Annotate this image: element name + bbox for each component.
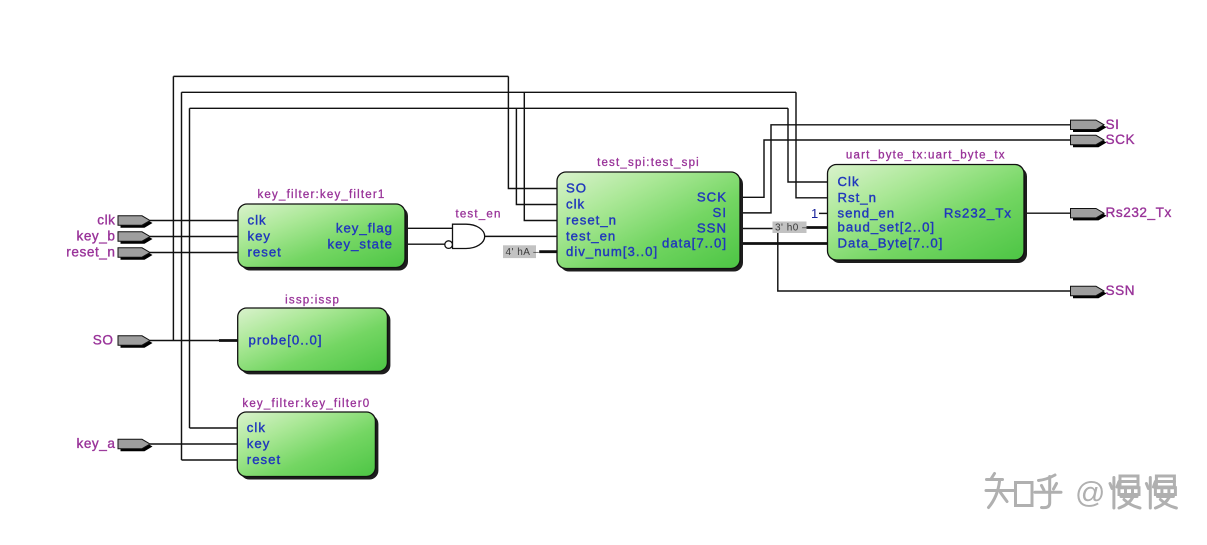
svg-text:reset: reset [247,452,281,467]
input pin key_b [76,229,152,244]
svg-text:key_filter:key_filter0: key_filter:key_filter0 [242,398,370,410]
svg-text:reset_n: reset_n [66,245,115,260]
wire reset_n pin to key_filter1 reset [150,252,238,254]
svg-text:div_num[3..0]: div_num[3..0] [566,244,658,259]
output pin Rs232_Tx [1071,205,1172,220]
block key_filter:key_filter0 [237,398,378,480]
wire SO net left vertical (x=173.4) [172,76,174,340]
wire reset net left vertical (x=181.5) [181,92,183,460]
block issp:issp [238,295,391,375]
wire clk net top horizontal (y=108.3) [190,107,789,109]
svg-text:Data_Byte[7..0]: Data_Byte[7..0] [838,236,944,251]
svg-text:key: key [247,436,271,451]
svg-text:SCK: SCK [1106,132,1136,147]
svg-text:test_en: test_en [566,229,616,244]
svg-text:reset: reset [248,245,282,260]
svg-text:probe[0..0]: probe[0..0] [249,333,323,348]
block uart_byte_tx:uart_byte_tx [828,150,1028,264]
svg-text:@: @ [1075,477,1105,510]
wire clk branch to test_spi clk [516,108,557,204]
wire test_spi SCK output to SCK pin [740,140,1071,197]
svg-text:Rs232_Tx: Rs232_Tx [1106,205,1172,220]
wire SO net top horizontal (y=76.4) [173,75,508,77]
input pin key_a [76,436,152,451]
svg-text:uart_byte_tx:uart_byte_tx: uart_byte_tx:uart_byte_tx [846,150,1006,162]
bus SO to issp probe (thick stub) [219,339,238,342]
svg-text:data[7..0]: data[7..0] [662,236,727,251]
svg-text:issp:issp: issp:issp [285,295,340,307]
bus test_spi data to uart Data_Byte [740,242,828,245]
input pin reset_n [66,245,152,260]
output pin SI [1071,117,1120,132]
wire SO pin to issp probe (thin part) [150,340,219,342]
input pin clk [97,213,152,228]
wire key_a pin to key_filter0 key [150,443,237,445]
svg-text:test_spi:test_spi: test_spi:test_spi [597,157,700,169]
constant label 4'hA [503,245,539,258]
bus constant 3'h0 to uart baud_set [807,226,828,229]
constant label 3'h0 [773,222,809,234]
wire key_state to AND gate bubble [405,243,445,245]
svg-text:SSN: SSN [1106,283,1136,298]
output pin SCK [1071,132,1136,147]
svg-text:SO: SO [93,333,114,348]
svg-text:key_a: key_a [76,436,115,451]
wire reset net top horizontal (y=92.3) [182,91,797,93]
svg-text:clk: clk [247,420,266,435]
wire SO down to test_spi SO [508,76,557,188]
wire constant 1 to uart send_en [819,212,828,214]
wire test_spi SI output to SI pin [740,125,1071,213]
svg-text:key: key [248,229,272,244]
input pin SO [93,333,153,348]
wire reset branch to test_spi reset_n [524,92,557,220]
output pin SSN [1071,283,1136,298]
svg-text:1: 1 [811,206,818,221]
svg-text:key_flag: key_flag [336,220,393,235]
svg-text:SO: SO [566,181,587,196]
svg-text:clk: clk [97,213,115,228]
block key_filter:key_filter1 [238,189,408,271]
svg-text:4' hA –: 4' hA – [506,247,540,258]
svg-text:SCK: SCK [697,190,727,205]
svg-text:key_b: key_b [76,229,115,244]
watermark 知乎 @慢慢 [986,474,1176,510]
svg-text:SSN: SSN [697,221,727,236]
wire reset to uart Rst_n [796,92,828,198]
wire key_b pin to key_filter1 key [150,236,238,238]
svg-text:SI: SI [713,205,727,220]
svg-text:reset_n: reset_n [566,213,617,228]
svg-text:baud_set[2..0]: baud_set[2..0] [838,220,936,235]
svg-text:send_en: send_en [838,206,896,221]
wire clk to key_filter0 clk [190,427,238,429]
wire uart Rs232_Tx output to pin [1024,212,1071,214]
wire clk to uart Clk [788,108,828,182]
svg-text:clk: clk [566,197,585,212]
wire reset to key_filter0 reset [182,459,238,461]
op gate test_en (AND with inverted input) [445,209,502,249]
wire clk net left vertical (x=189.5) [189,108,191,428]
constant 1 on send_en [811,206,818,221]
svg-text:Rs232_Tx: Rs232_Tx [944,205,1012,220]
svg-text:key_state: key_state [328,236,393,251]
wire clk pin to key_filter1 clk [150,220,238,222]
svg-text:test_en: test_en [455,209,501,221]
svg-text:key_filter:key_filter1: key_filter:key_filter1 [257,189,385,201]
wire test_spi SSN output to SSN pin [740,229,1071,292]
block test_spi:test_spi [557,157,743,272]
svg-text:clk: clk [248,213,267,228]
svg-text:SI: SI [1106,117,1120,132]
wire test_en gate output to test_spi [485,235,557,237]
svg-text:3' h0 –: 3' h0 – [775,223,808,234]
svg-text:Clk: Clk [838,174,860,189]
svg-text:Rst_n: Rst_n [838,190,877,205]
wire key_flag to AND gate input [405,227,453,229]
bus constant 4'hA to test_spi div_num [539,250,557,253]
